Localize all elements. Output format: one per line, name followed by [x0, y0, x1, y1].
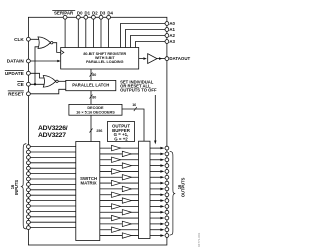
- gate U2 body: [43, 76, 56, 88]
- output OUT3 pin: [165, 164, 169, 168]
- output OUT11 pin: [165, 210, 169, 214]
- svg-text:G = +2: G = +2: [114, 136, 128, 141]
- svg-text:PARALLEL LATCH: PARALLEL LATCH: [72, 83, 109, 88]
- output OUT13 wire: [100, 223, 139, 225]
- svg-text:INPUTS: INPUTS: [14, 180, 19, 195]
- output OUT6 pin: [165, 181, 169, 185]
- input IN11: [30, 205, 76, 207]
- pin A2: [165, 34, 169, 38]
- output OUT1 pin: [165, 152, 169, 156]
- output buffer amp 12: [112, 215, 121, 220]
- wire D4 stub: [108, 17, 110, 47]
- svg-text:A0: A0: [169, 21, 175, 26]
- block parallel latch U5: [66, 80, 116, 90]
- output buffer amp 1: [122, 151, 131, 156]
- svg-text:DATAIN: DATAIN: [7, 59, 25, 64]
- input IN15: [30, 227, 76, 229]
- output OUT15 wire: [100, 235, 139, 237]
- input IN0: [30, 146, 76, 148]
- svg-text:OUTPUTS: OUTPUTS: [180, 177, 185, 197]
- output OUT1 wire: [100, 153, 139, 155]
- svg-text:SER/PAR: SER/PAR: [54, 11, 74, 16]
- output OUT11 wire: [100, 211, 139, 213]
- output OUT8 pin: [165, 193, 169, 197]
- output OUT2 wire: [100, 159, 139, 161]
- annotation pointer arrow: [154, 95, 156, 141]
- output buffer amp 7: [122, 186, 131, 191]
- output buffer amp 9: [122, 198, 131, 203]
- pin SER/PAR: [63, 15, 67, 19]
- output OUT4 wire: [100, 170, 139, 172]
- output buffer amp 8: [112, 192, 121, 197]
- dataout buffer U4: [148, 54, 157, 64]
- pin D4: [107, 15, 111, 19]
- wire D0 stub: [77, 17, 79, 47]
- wire D1 stub: [85, 17, 87, 47]
- output buffer amp 11: [122, 210, 131, 215]
- output OUT5 pin: [165, 175, 169, 179]
- wire CLK to gate U1: [28, 38, 40, 40]
- brace inputs: [21, 144, 26, 229]
- input IN3: [30, 162, 76, 164]
- svg-text:80: 80: [92, 73, 96, 77]
- svg-text:MATRIX: MATRIX: [81, 181, 97, 186]
- pin D1: [84, 15, 88, 19]
- wire shiftreg to dataout buffer: [139, 58, 144, 60]
- block output enable column: [139, 141, 151, 238]
- input IN2: [30, 156, 76, 158]
- svg-text:OUTPUTS TO OFF: OUTPUTS TO OFF: [120, 88, 157, 93]
- input IN9: [30, 194, 76, 196]
- output buffer amp 15: [122, 233, 131, 238]
- pin CE: [27, 82, 31, 86]
- output OUT6 wire: [100, 182, 139, 184]
- output buffer amp 6: [112, 180, 121, 185]
- pin D0: [76, 15, 80, 19]
- output OUT9 wire: [100, 200, 139, 202]
- output buffer amp 2: [112, 157, 121, 162]
- pin DATAOUT: [165, 57, 169, 61]
- wire buffer to DATAOUT pin: [157, 58, 165, 60]
- input IN8: [30, 189, 76, 191]
- svg-text:DATAOUT: DATAOUT: [169, 56, 190, 61]
- output OUT14 wire: [100, 229, 139, 231]
- output buffer amp 4: [112, 169, 121, 174]
- pin RESET: [27, 92, 31, 96]
- output OUT0 wire: [100, 147, 139, 149]
- output OUT8 wire: [100, 194, 139, 196]
- block switch matrix U8: [76, 142, 100, 241]
- pin UPDATE: [27, 71, 31, 75]
- svg-text:PARALLEL LOADING: PARALLEL LOADING: [86, 60, 123, 64]
- input IN13: [30, 216, 76, 218]
- output OUT12 wire: [100, 217, 139, 219]
- block 80-bit shift register U3: [61, 48, 139, 70]
- clock chevron: [61, 50, 64, 54]
- svg-text:ADV3226/: ADV3226/: [38, 125, 68, 132]
- output OUT7 pin: [165, 187, 169, 191]
- junction dot on CE line: [34, 83, 36, 85]
- output OUT5 wire: [100, 176, 139, 178]
- output buffer amp 13: [122, 221, 131, 226]
- output OUT13 pin: [165, 222, 169, 226]
- output OUT10 pin: [165, 205, 169, 209]
- pin A1: [165, 28, 169, 32]
- bus 16 decode to output enable: [122, 109, 144, 141]
- output OUT7 wire: [100, 188, 139, 190]
- output buffer amp 3: [122, 163, 131, 168]
- wire U1 output to shift register clock: [53, 43, 61, 53]
- svg-text:CE: CE: [17, 82, 24, 87]
- bus 256 decode to switch matrix: [90, 115, 92, 141]
- input IN10: [30, 200, 76, 202]
- svg-text:A2: A2: [169, 33, 175, 38]
- input IN6: [30, 178, 76, 180]
- output OUT10 wire: [100, 205, 139, 207]
- svg-text:256: 256: [96, 129, 102, 133]
- output OUT3 wire: [100, 165, 139, 167]
- wire D3 stub: [100, 17, 102, 47]
- wire A0: [121, 24, 167, 48]
- pin A3: [165, 40, 169, 44]
- wire A2: [131, 36, 167, 48]
- output buffer amp 10: [112, 204, 121, 209]
- wire DATAIN: [28, 60, 57, 62]
- svg-text:D0: D0: [77, 11, 83, 16]
- svg-text:D2: D2: [92, 11, 98, 16]
- wire A1: [126, 30, 167, 48]
- output OUT2 pin: [165, 158, 169, 162]
- svg-text:A1: A1: [169, 27, 175, 32]
- svg-text:CLK: CLK: [14, 37, 24, 42]
- svg-text:16: 16: [132, 103, 136, 107]
- wire UPDATE jog: [28, 73, 45, 78]
- gate U1 output bubble: [51, 42, 53, 44]
- pin D2: [92, 15, 96, 19]
- wire CE branch up to gate U1: [35, 47, 41, 85]
- input IN14: [30, 221, 76, 223]
- wire RESET: [28, 89, 65, 94]
- output OUT4 pin: [165, 170, 169, 174]
- input IN1: [30, 151, 76, 153]
- svg-text:UPDATE: UPDATE: [5, 71, 24, 76]
- wire U2 output to parallel latch: [58, 80, 66, 82]
- gate U1 body: [38, 37, 51, 49]
- pin CLK: [27, 37, 31, 41]
- bus 80 shiftreg to latch: [90, 69, 92, 80]
- brace outputs: [170, 151, 175, 235]
- svg-text:D3: D3: [100, 11, 106, 16]
- wire SER/PAR stub: [64, 17, 66, 47]
- output OUT12 pin: [165, 216, 169, 220]
- svg-text:04771-001: 04771-001: [197, 232, 201, 247]
- svg-text:ADV3227: ADV3227: [38, 132, 66, 139]
- svg-text:RESET: RESET: [8, 91, 24, 96]
- pin DATAIN: [27, 59, 31, 63]
- output OUT0 pin: [165, 146, 169, 150]
- chip boundary box: [28, 17, 167, 245]
- output buffer amp 5: [122, 175, 131, 180]
- block decode U6: [69, 104, 122, 115]
- svg-text:80: 80: [92, 95, 96, 99]
- block output buffer U7: [108, 122, 135, 142]
- output OUT14 pin: [165, 228, 169, 232]
- input IN5: [30, 173, 76, 175]
- output OUT9 pin: [165, 199, 169, 203]
- output OUT15 pin: [165, 234, 169, 238]
- wire CE: [28, 83, 45, 85]
- output buffer amp 14: [112, 227, 121, 232]
- wire A3: [136, 42, 167, 48]
- svg-text:A3: A3: [169, 39, 175, 44]
- gate U2 output bubble: [56, 80, 58, 82]
- pin D3: [99, 15, 103, 19]
- input IN7: [30, 183, 76, 185]
- wire D2 stub: [92, 17, 94, 47]
- svg-text:D4: D4: [107, 11, 113, 16]
- bus 80 latch to decode: [90, 91, 92, 105]
- input IN12: [30, 210, 76, 212]
- svg-text:16 × 5:16 DECODERS: 16 × 5:16 DECODERS: [76, 110, 115, 114]
- svg-text:D1: D1: [85, 11, 91, 16]
- output buffer amp 0: [112, 145, 121, 150]
- input IN4: [30, 167, 76, 169]
- pin A0: [165, 22, 169, 26]
